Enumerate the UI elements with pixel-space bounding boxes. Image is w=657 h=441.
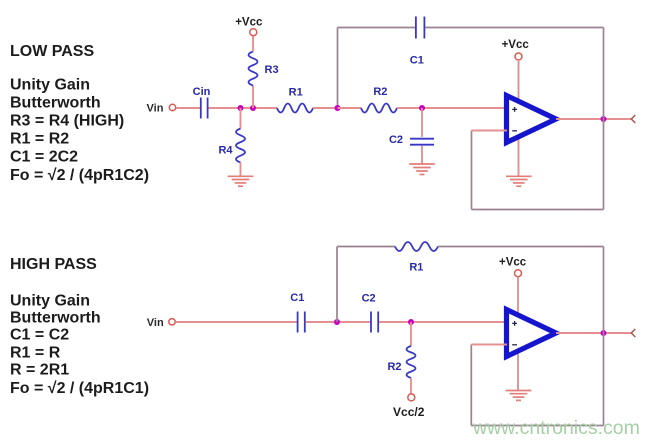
junction node D — [408, 319, 414, 325]
wire to U1 - input — [472, 130, 508, 132]
wire to U2 - input — [471, 344, 507, 346]
power terminal Vcc/2 — [408, 394, 415, 401]
wire feedback right column (U2) — [603, 247, 605, 426]
wire R1 to node A — [313, 107, 338, 109]
wire R2 to Vcc/2 terminal — [410, 378, 412, 394]
junction node 2 (R3 tap) — [250, 105, 256, 111]
ground (C2) — [409, 164, 435, 175]
wire node 1 down to R4 — [240, 108, 242, 129]
wire feedback bottom (U1) — [472, 209, 604, 211]
op-amp U2 — [507, 310, 557, 357]
svg-text:C2: C2 — [362, 292, 376, 304]
wire R3 to +Vcc — [252, 36, 254, 52]
junction output node (U1) — [601, 116, 607, 122]
wire node D down to R2 — [410, 322, 412, 346]
wire R2 to node B — [397, 107, 422, 109]
svg-text:R1 = R2: R1 = R2 — [10, 131, 69, 148]
wire Vin to Cin — [176, 107, 200, 109]
svg-text:+Vcc: +Vcc — [502, 39, 530, 51]
terminal Vin (low-pass) — [169, 104, 175, 110]
svg-text:C1 = 2C2: C1 = 2C2 — [10, 149, 78, 166]
resistor R1 (high-pass) — [395, 242, 438, 251]
svg-text:Fo = √2 / (4pR1C2): Fo = √2 / (4pR1C2) — [10, 167, 149, 184]
svg-text:R4: R4 — [218, 145, 233, 157]
svg-text:Vin: Vin — [147, 103, 164, 115]
capacitor Cin — [201, 98, 208, 119]
junction output node (U2) — [601, 330, 607, 336]
terminal Vout (high-pass) — [631, 329, 635, 337]
svg-text:R3 = R4 (HIGH): R3 = R4 (HIGH) — [10, 113, 124, 130]
resistor R2 (high-pass) — [407, 346, 416, 378]
power terminal +Vcc (op-amp U1) — [515, 53, 522, 60]
wire node D to op-amp + input — [411, 321, 507, 323]
svg-text:R1: R1 — [289, 87, 303, 99]
wire node A to R2 — [338, 107, 362, 109]
svg-text:Unity Gain: Unity Gain — [10, 293, 90, 310]
ground (R4) — [228, 176, 254, 186]
wire feedback left (U1) — [471, 131, 473, 210]
svg-text:Butterworth: Butterworth — [10, 94, 101, 111]
text: high-pass design notes — [10, 293, 149, 398]
junction node B — [419, 105, 425, 111]
svg-text:+Vcc: +Vcc — [499, 257, 527, 269]
resistor R2 — [361, 104, 397, 113]
capacitor C1 — [416, 17, 425, 39]
junction node A — [335, 105, 341, 111]
capacitor C2 — [410, 139, 434, 145]
wire feedback bottom (U2) — [471, 425, 603, 427]
wire node C to C2 — [337, 321, 370, 323]
svg-text:+Vcc: +Vcc — [235, 16, 263, 28]
wire feedback right column (U1) — [603, 28, 605, 210]
svg-text:R1 = R: R1 = R — [10, 345, 61, 362]
ground (op-amp U1) — [506, 176, 532, 186]
wire Vin to C1 (high-pass) — [175, 321, 296, 323]
capacitor C2 (high-pass) — [371, 312, 378, 333]
power terminal +Vcc (R3) — [250, 29, 257, 36]
U2 - input marker — [512, 344, 517, 346]
wire +Vcc through U2 to ground — [517, 277, 519, 391]
wire C1 to node C — [306, 321, 337, 323]
power terminal +Vcc (op-amp U2) — [515, 270, 522, 277]
wire C2 to node D — [379, 321, 411, 323]
svg-text:Unity Gain: Unity Gain — [10, 76, 90, 93]
wire C1 top-left segment — [338, 27, 416, 29]
wire R4 to ground — [240, 163, 242, 177]
ground (op-amp U2) — [506, 391, 532, 401]
svg-text:C1 = C2: C1 = C2 — [10, 327, 69, 344]
wire node 2 up to R3 — [252, 86, 254, 109]
resistor R4 — [236, 129, 245, 163]
svg-text:LOW PASS: LOW PASS — [10, 43, 94, 60]
wire R1 top-left segment — [337, 246, 395, 248]
wire node C up to R1 (feedback riser) — [336, 247, 338, 323]
svg-text:Fo = √2 / (4pR1C1): Fo = √2 / (4pR1C1) — [10, 380, 149, 397]
svg-text:Cin: Cin — [193, 86, 211, 98]
wire R1 top-right segment — [438, 246, 604, 248]
junction node C — [334, 319, 340, 325]
terminal Vout (low-pass) — [631, 115, 635, 123]
svg-text:R2: R2 — [373, 86, 387, 98]
wire U2 output — [556, 332, 632, 334]
svg-text:R2: R2 — [387, 361, 401, 373]
wire U1 output — [556, 118, 632, 120]
terminal Vin (high-pass) — [169, 319, 175, 325]
wire node B to op-amp + input — [422, 107, 507, 109]
wire +Vcc through U1 to ground — [518, 60, 520, 176]
svg-text:www.cntronics.com: www.cntronics.com — [472, 417, 640, 439]
svg-text:Vcc/2: Vcc/2 — [393, 405, 425, 419]
wire Cin to input node — [209, 107, 278, 109]
wire node B down to C2 — [421, 108, 423, 137]
capacitor C1 (high-pass) — [298, 312, 305, 333]
U1 + input marker — [512, 107, 517, 112]
wire C1 top-right segment — [425, 27, 603, 29]
wire C2 to ground — [421, 146, 423, 164]
text: low-pass design notes — [10, 76, 149, 184]
junction node 1 (R4 tap) — [238, 105, 244, 111]
U1 - input marker — [512, 130, 517, 132]
svg-text:Vin: Vin — [147, 317, 164, 329]
resistor R3 — [249, 51, 258, 85]
resistor R1 — [277, 104, 313, 113]
svg-text:C1: C1 — [290, 292, 304, 304]
svg-text:C1: C1 — [410, 55, 424, 67]
U2 + input marker — [512, 321, 517, 326]
svg-text:R1: R1 — [409, 262, 423, 274]
wire feedback left (U2) — [470, 345, 472, 426]
wire node A up to C1 (feedback riser) — [337, 28, 339, 109]
svg-text:C2: C2 — [389, 134, 403, 146]
op-amp U1 — [507, 96, 557, 143]
svg-text:HIGH PASS: HIGH PASS — [10, 256, 97, 273]
svg-text:Butterworth: Butterworth — [10, 310, 101, 327]
svg-text:R3: R3 — [265, 64, 279, 76]
svg-text:R = 2R1: R = 2R1 — [10, 362, 69, 379]
